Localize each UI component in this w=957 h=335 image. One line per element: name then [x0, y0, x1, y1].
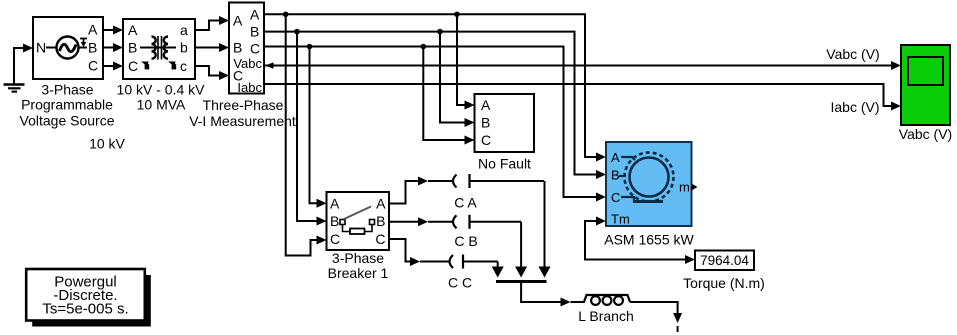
svg-text:3-Phase: 3-Phase — [41, 82, 93, 98]
svg-text:No Fault: No Fault — [478, 156, 531, 172]
svg-text:Voltage Source: Voltage Source — [20, 113, 115, 129]
svg-text:C B: C B — [454, 233, 477, 249]
node C1 junction dot — [307, 44, 313, 50]
wire B-bus to No Fault B input — [440, 32, 475, 127]
node C2 junction dot — [421, 44, 427, 50]
svg-text:Tm: Tm — [611, 212, 630, 227]
node A1 junction dot — [283, 12, 289, 18]
svg-text:A: A — [128, 22, 138, 38]
wire B (V-I output B bus) — [264, 32, 606, 179]
svg-text:B: B — [250, 24, 259, 40]
svg-text:B: B — [128, 40, 137, 56]
svg-text:ASM 1655 kW: ASM 1655 kW — [604, 232, 694, 248]
svg-text:A: A — [376, 196, 386, 212]
3-Phase Breaker 1 block — [327, 192, 390, 250]
label: Three-Phase V-I Measurement — [189, 97, 296, 129]
svg-text:B: B — [233, 40, 242, 56]
svg-text:b: b — [180, 40, 188, 56]
wire source A to transformer A — [103, 26, 123, 35]
svg-text:c: c — [180, 58, 187, 74]
node B1 junction dot — [294, 29, 300, 35]
wire CB down to neutral bus — [515, 222, 527, 278]
svg-text:C: C — [481, 132, 491, 148]
transformer T1 10kV-0.4kV 10MVA — [123, 19, 195, 79]
svg-text:C: C — [250, 41, 260, 57]
wire B-bus to breaker B input — [297, 32, 327, 226]
svg-text:C: C — [128, 58, 138, 74]
svg-text:3-Phase: 3-Phase — [332, 250, 384, 266]
svg-text:A: A — [250, 7, 260, 23]
svg-text:Iabc (V): Iabc (V) — [830, 99, 879, 115]
svg-text:B: B — [88, 40, 97, 56]
wire breaker B out to capacitor CB — [389, 217, 452, 226]
svg-text:m: m — [679, 180, 690, 195]
svg-text:10 kV - 0.4 kV: 10 kV - 0.4 kV — [117, 82, 206, 98]
svg-text:10 kV: 10 kV — [89, 136, 125, 152]
svg-text:L Branch: L Branch — [578, 308, 634, 324]
svg-text:C: C — [611, 190, 620, 205]
svg-text:N: N — [36, 40, 46, 56]
wire transformer c to V-I C — [195, 66, 229, 80]
svg-text:Torque (N.m): Torque (N.m) — [683, 275, 765, 291]
wire CA down to neutral bus — [539, 181, 551, 278]
svg-text:V-I Measurement: V-I Measurement — [189, 113, 296, 129]
svg-text:C: C — [375, 231, 385, 247]
svg-text:Iabc: Iabc — [237, 80, 262, 95]
svg-text:B: B — [481, 115, 490, 131]
wire transformer a to V-I A — [195, 16, 229, 30]
svg-text:Ts=5e-005 s.: Ts=5e-005 s. — [42, 301, 128, 318]
scope Vabc (V) — [901, 45, 950, 125]
wire transformer b to V-I B — [195, 43, 229, 52]
svg-text:C C: C C — [448, 274, 472, 290]
wire A-bus to breaker C input (wrap under) — [286, 14, 327, 255]
wire ground to source N input — [13, 44, 33, 53]
svg-text:10 MVA: 10 MVA — [137, 97, 186, 113]
wire Vabc to scope — [264, 61, 901, 70]
svg-text:C: C — [330, 231, 340, 247]
asynchronous machine ASM 1655 kW — [606, 142, 698, 227]
wire Iabc to scope — [264, 84, 901, 111]
Three-Phase V-I Measurement block — [229, 3, 264, 96]
label: 3-Phase Breaker 1 — [328, 250, 389, 281]
display Torque 7964.04 — [695, 251, 754, 271]
wire CC down to neutral bus — [492, 262, 504, 278]
svg-text:Vabc (V): Vabc (V) — [899, 126, 952, 142]
svg-text:Vabc (V): Vabc (V) — [826, 46, 879, 62]
inductor L Branch — [584, 295, 630, 305]
svg-text:Programmable: Programmable — [21, 97, 113, 113]
svg-text:A: A — [330, 196, 340, 212]
label: 3-Phase Programmable Voltage Source 10 kV — [20, 82, 126, 152]
capacitor C C — [450, 255, 498, 269]
wire source C to transformer C — [103, 62, 123, 71]
capacitor C A — [453, 174, 544, 188]
No Fault block — [475, 94, 535, 152]
svg-text:C A: C A — [454, 195, 477, 211]
wire neutral bus to L Branch — [521, 283, 585, 307]
svg-text:Vabc: Vabc — [233, 56, 262, 71]
3-Phase Programmable Voltage Source U1 — [33, 17, 103, 79]
svg-text:B: B — [330, 213, 339, 229]
svg-text:B: B — [611, 168, 620, 183]
svg-text:A: A — [233, 13, 243, 29]
wire L Branch to lower port — [630, 302, 682, 332]
capacitor C B — [453, 215, 521, 229]
wire breaker C out to capacitor CC — [389, 239, 449, 266]
svg-text:Breaker 1: Breaker 1 — [328, 265, 389, 281]
wire A-bus to No Fault A input — [457, 14, 475, 109]
ground — [4, 48, 25, 92]
svg-text:A: A — [611, 150, 620, 165]
powergui block — [26, 269, 151, 327]
svg-text:a: a — [180, 22, 188, 38]
wire A (V-I output A bus) — [264, 14, 606, 161]
neutral bus bar — [496, 280, 547, 283]
wire breaker A out to capacitor CA — [389, 177, 452, 204]
node A2 junction dot — [454, 12, 460, 18]
svg-text:C: C — [88, 58, 98, 74]
wire C-bus to No Fault C input — [423, 47, 474, 145]
wire C (V-I output C bus) — [264, 47, 606, 202]
svg-text:7964.04: 7964.04 — [700, 253, 749, 268]
node B2 junction dot — [437, 29, 443, 35]
svg-text:B: B — [376, 213, 385, 229]
svg-text:Three-Phase: Three-Phase — [203, 97, 284, 113]
wire Tm input and to torque display — [585, 217, 695, 265]
wire source B to transformer B — [103, 43, 123, 52]
svg-text:A: A — [481, 97, 491, 113]
svg-text:A: A — [88, 22, 98, 38]
label: 10 kV - 0.4 kV 10 MVA — [117, 82, 206, 113]
wire C-bus to breaker A input — [310, 47, 327, 208]
